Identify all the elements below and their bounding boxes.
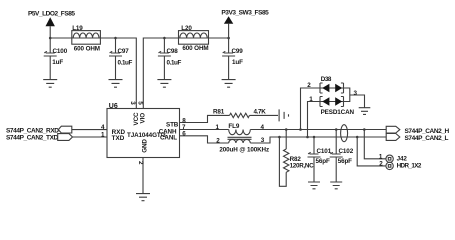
- port flag TXD: [58, 134, 73, 141]
- svg-text:C101: C101: [317, 148, 332, 155]
- op-amp U6 TJA1044GT body: [107, 103, 180, 158]
- svg-text:S744P_CAN2_L: S744P_CAN2_L: [405, 135, 449, 142]
- diode pair bottom: [320, 97, 323, 107]
- wire CANL row FL9 to flag: [250, 137, 386, 143]
- ground under C100: [43, 80, 57, 88]
- ground under D38: [359, 108, 371, 115]
- ground under U6: [136, 194, 150, 201]
- node junction P5V/C100: [49, 37, 52, 40]
- svg-text:200uH @ 100KHz: 200uH @ 100KHz: [219, 146, 269, 153]
- power net P5V_LDO2_FS85: [28, 11, 75, 39]
- svg-text:600 OHM: 600 OHM: [182, 45, 208, 52]
- connector J42: [379, 153, 422, 169]
- svg-text:U6: U6: [109, 103, 118, 110]
- svg-text:PESD1CAN: PESD1CAN: [321, 109, 355, 116]
- ground under C99: [222, 80, 236, 88]
- svg-text:R81: R81: [213, 109, 225, 116]
- svg-text:J42: J42: [397, 155, 408, 162]
- svg-text:C102: C102: [339, 148, 354, 155]
- node junction J42 pin2 on CANL: [356, 136, 359, 139]
- wire U6 GND pin2: [142, 158, 144, 194]
- svg-text:CANL: CANL: [160, 135, 177, 142]
- svg-text:HDR_1X2: HDR_1X2: [397, 163, 422, 170]
- wire R81 to ground: [250, 114, 279, 116]
- capacitor C97: [109, 38, 132, 80]
- capacitor C102: [330, 130, 354, 183]
- ground under C101: [308, 182, 320, 189]
- wire J42 pin1: [364, 130, 386, 159]
- svg-text:GND: GND: [142, 139, 149, 153]
- resistor R81: [213, 109, 266, 118]
- svg-text:120R,NC: 120R,NC: [290, 163, 315, 170]
- node junction R82 bottom on CANL: [278, 136, 281, 139]
- wire rail1 P5V to U6 VCC: [50, 38, 136, 109]
- ground under C97: [109, 80, 123, 88]
- node junction C98: [163, 37, 166, 40]
- svg-text:VIO: VIO: [140, 113, 147, 124]
- diode D38 PESD1CAN: [301, 76, 365, 137]
- node junction P3V3/C99: [227, 37, 230, 40]
- svg-text:S744P_CAN2_H: S744P_CAN2_H: [405, 128, 450, 135]
- svg-text:4.7K: 4.7K: [254, 109, 267, 116]
- capacitor C98: [158, 38, 182, 80]
- ground under C98: [157, 80, 171, 88]
- wire D38 pin1: [308, 102, 321, 138]
- svg-text:600 OHM: 600 OHM: [74, 45, 100, 52]
- port flag CAN2_L: [386, 134, 400, 141]
- svg-text:56pF: 56pF: [316, 158, 330, 165]
- ground under C102: [330, 182, 342, 189]
- svg-text:FL9: FL9: [228, 123, 239, 130]
- wire D38 pin2: [301, 88, 321, 130]
- wire J42 pin2: [357, 137, 386, 166]
- inductor L20: [179, 25, 209, 52]
- svg-text:0.1uF: 0.1uF: [167, 59, 182, 66]
- svg-text:S744P_CAN2_TXD: S744P_CAN2_TXD: [6, 134, 59, 141]
- svg-text:2: 2: [137, 161, 144, 165]
- svg-text:3: 3: [129, 101, 136, 105]
- svg-text:5: 5: [136, 101, 143, 105]
- svg-text:C100: C100: [53, 48, 68, 55]
- wire CANL pin6 to FL9: [180, 136, 229, 143]
- node junction D38 pin2 on CANH: [299, 128, 302, 131]
- svg-text:56pF: 56pF: [338, 158, 352, 165]
- capacitor C99: [222, 38, 243, 80]
- svg-text:0.1uF: 0.1uF: [118, 59, 133, 66]
- svg-text:L20: L20: [181, 25, 192, 32]
- node junction R82 top on CANH: [285, 128, 288, 131]
- node junction C97: [114, 37, 117, 40]
- wire RXD to pin4: [72, 129, 107, 131]
- svg-text:C99: C99: [232, 48, 244, 55]
- wire CANH pin7 to FL9: [180, 129, 229, 131]
- common-mode choke FL9: [216, 123, 270, 153]
- wire STB pin8 to R81: [180, 115, 230, 122]
- wire TXD to pin1: [73, 136, 108, 138]
- wire rail2 U6 VIO to P3V3: [143, 38, 228, 109]
- ground sideways at R81: [279, 109, 288, 121]
- capacitor C101: [308, 137, 332, 182]
- node junction D38 pin1 on CANL: [306, 136, 309, 139]
- wire D38 pin3: [344, 88, 365, 108]
- svg-text:TXD: TXD: [112, 135, 125, 142]
- svg-text:1uF: 1uF: [52, 59, 63, 66]
- node junction J42 pin1 on CANH: [363, 128, 366, 131]
- resistor R82: [279, 130, 314, 187]
- svg-text:6: 6: [182, 130, 186, 137]
- wire CANH row FL9 to flag: [250, 129, 386, 131]
- svg-text:C98: C98: [167, 48, 179, 55]
- svg-text:D38: D38: [321, 76, 332, 83]
- svg-text:C97: C97: [118, 48, 130, 55]
- port flag CAN2_H: [386, 126, 400, 133]
- node junction C101 on CANL: [313, 136, 316, 139]
- svg-text:1uF: 1uF: [232, 59, 243, 66]
- svg-text:P3V3_SW3_FS85: P3V3_SW3_FS85: [221, 10, 269, 17]
- svg-text:L19: L19: [72, 25, 83, 32]
- diode pair top: [320, 83, 323, 93]
- node junction C102 on CANH: [335, 128, 338, 131]
- power net P3V3_SW3_FS85: [221, 10, 269, 39]
- svg-text:P5V_LDO2_FS85: P5V_LDO2_FS85: [28, 11, 75, 18]
- capacitor C100: [44, 38, 68, 80]
- inductor L19: [72, 25, 101, 53]
- twisted pair ellipse: [341, 125, 348, 142]
- port flag RXD: [58, 126, 72, 133]
- svg-text:2: 2: [216, 137, 220, 144]
